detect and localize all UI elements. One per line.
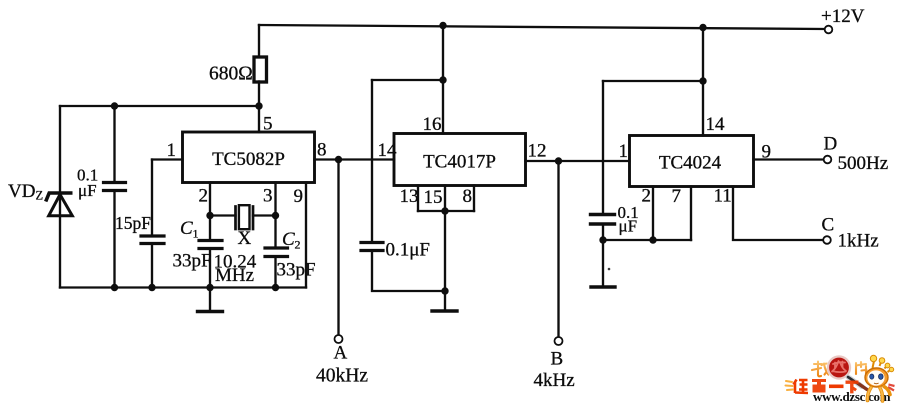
capacitor C2 33pF plates — [265, 246, 288, 249]
wire left vertical rail x=60 — [59, 106, 61, 288]
svg-text:680Ω: 680Ω — [209, 64, 253, 85]
wire 0.1uF (U3) lower — [602, 226, 604, 287]
svg-text:A: A — [334, 343, 348, 364]
svg-text:4kHz: 4kHz — [534, 370, 575, 391]
junction crystal right — [272, 212, 279, 219]
svg-text:11: 11 — [714, 186, 732, 207]
crystal X body box — [239, 205, 250, 229]
junction rail / C2 — [272, 284, 279, 291]
junction y81 branch — [699, 77, 706, 84]
wire horizontal node row y=106 — [60, 105, 259, 107]
svg-text:1: 1 — [619, 141, 629, 162]
terminal C — [823, 236, 831, 244]
wire pin1 horizontal — [152, 158, 183, 160]
wire 15pF branch lower — [151, 245, 153, 288]
junction crystal left — [206, 212, 213, 219]
svg-text:1kHz: 1kHz — [838, 231, 879, 252]
svg-text:C: C — [180, 218, 193, 239]
wire +12V top rail — [259, 25, 824, 29]
wire pin9 vertical — [305, 183, 307, 288]
wire bottom ground rail — [60, 286, 306, 288]
wire 15pF branch upper — [151, 160, 153, 235]
wire pin15 node down — [444, 211, 446, 291]
svg-text:7: 7 — [672, 186, 682, 207]
junction top rail / pin16 — [439, 22, 446, 29]
resistor 680 ohm body — [254, 57, 267, 82]
crystal X side plates — [234, 207, 237, 230]
junction y80 branch — [439, 76, 446, 83]
wire C1 lower lead — [209, 250, 211, 288]
svg-text:B: B — [551, 349, 564, 370]
wire C2 lower lead — [274, 258, 276, 288]
VDZ cathode bar — [46, 193, 73, 202]
capacitor 0.1uF (U2) plates — [361, 241, 383, 244]
wire node A vertical — [337, 160, 339, 336]
wire branch y=81 horizontal — [603, 80, 703, 82]
wire 0.1uF branch x=372 upper — [371, 80, 373, 241]
IC U2 TC4017P box — [394, 134, 526, 186]
svg-text:40kHz: 40kHz — [316, 366, 368, 387]
junction node row / resistor — [255, 102, 262, 109]
speck artifact — [608, 268, 611, 271]
svg-text:μF: μF — [619, 217, 638, 236]
svg-text:C: C — [822, 215, 835, 236]
svg-text:TC5082P: TC5082P — [212, 149, 285, 170]
wire resistor bottom lead to pin 5 node — [258, 82, 260, 107]
svg-text:14: 14 — [706, 114, 726, 135]
junction pin8 / node A — [335, 156, 342, 163]
wire pin8(U2) stub — [473, 186, 475, 212]
IC U3 TC4024 box — [630, 136, 754, 187]
wire 0.1uF branch lower — [113, 192, 115, 288]
svg-text:+12V: +12V — [821, 6, 865, 27]
mascot — [865, 355, 895, 401]
svg-text:16: 16 — [423, 114, 442, 135]
svg-text:2: 2 — [199, 186, 209, 207]
svg-text:2: 2 — [642, 186, 652, 207]
svg-text:2: 2 — [295, 238, 301, 252]
wire 0.1uF (U3) branch upper — [602, 81, 604, 213]
svg-text:1: 1 — [167, 140, 177, 161]
svg-text:13: 13 — [400, 186, 419, 207]
terminal D — [824, 156, 832, 164]
ground G1 stem — [209, 288, 211, 311]
svg-text:5: 5 — [263, 114, 273, 135]
wire pin11 stub and run to C — [733, 187, 823, 241]
wire crystal right link — [253, 214, 276, 216]
wire pin12 to pin1 — [526, 160, 630, 162]
wire crystal left link — [210, 214, 236, 216]
svg-text:33pF: 33pF — [277, 260, 316, 281]
wire pin9 to terminal D — [754, 158, 825, 160]
terminal B — [555, 337, 563, 345]
terminal A — [335, 335, 343, 343]
svg-text:www.dzsc.com: www.dzsc.com — [813, 389, 891, 403]
ground G3 bar — [591, 285, 615, 288]
svg-text:33pF: 33pF — [173, 251, 212, 272]
junction pin12 / node B — [555, 157, 562, 164]
wire pin5 vertical into TC5082P — [258, 106, 260, 132]
wire resistor top lead — [258, 25, 260, 57]
junction top rail / pin14 — [699, 24, 706, 31]
ground G2 stem — [444, 291, 446, 310]
wire pin3 vertical — [274, 183, 276, 247]
svg-text:8: 8 — [463, 186, 473, 207]
svg-text:12: 12 — [528, 141, 547, 162]
wire pin15 stub — [444, 186, 446, 212]
svg-text:9: 9 — [294, 186, 304, 207]
svg-text:TC4017P: TC4017P — [423, 152, 496, 173]
junction ground G2 — [441, 287, 448, 294]
junction pins 13-15-8 — [441, 207, 448, 214]
svg-text:1: 1 — [193, 227, 199, 241]
ground G1 bar — [198, 310, 223, 313]
capacitor 0.1uF (U3) plates — [591, 213, 615, 216]
svg-text:TC4024: TC4024 — [659, 153, 722, 174]
wire pin7 stub — [690, 187, 692, 241]
svg-text:0.1μF: 0.1μF — [386, 240, 431, 261]
zener diode VDZ — [46, 193, 73, 216]
wire pin8 to pin14 — [315, 158, 395, 160]
wire pin2 vertical — [209, 183, 211, 239]
WATERMARK (decorative) — [786, 355, 895, 403]
wire 0.1uF branch x=114.5 upper — [113, 106, 115, 181]
wire 0.1uF lower to ground link — [372, 252, 445, 291]
IC U1 TC5082P box — [183, 132, 315, 183]
svg-text:9: 9 — [762, 142, 772, 163]
wire node B vertical — [557, 161, 559, 337]
VDZ triangle — [49, 195, 73, 216]
wire branch y=80 horizontal — [372, 79, 443, 81]
svg-text:X: X — [238, 228, 252, 249]
junction cap / pin2 row — [599, 236, 606, 243]
capacitor C1 33pF plates — [199, 239, 222, 242]
wire pin14(U3) vertical — [702, 28, 704, 136]
open terminals — [335, 26, 833, 345]
wire pin16 vertical — [442, 26, 444, 134]
svg-text:8: 8 — [317, 140, 327, 161]
svg-text:500Hz: 500Hz — [838, 153, 889, 174]
junction rail / C1 — [206, 284, 213, 291]
svg-text:14: 14 — [378, 140, 398, 161]
svg-text:MHz: MHz — [215, 265, 254, 286]
wire pin2/7 tie row — [603, 239, 691, 241]
wire pin13 stub — [417, 186, 419, 212]
wire pins 13-15-8 tie bar — [418, 210, 474, 212]
svg-text:C: C — [282, 229, 295, 250]
svg-text:15: 15 — [424, 187, 443, 208]
svg-text:3: 3 — [263, 186, 273, 207]
junction rail / 0.1uF — [111, 284, 118, 291]
junction node row / 0.1uF — [111, 102, 118, 109]
junction rail / 15pF — [148, 284, 155, 291]
svg-text:15pF: 15pF — [115, 213, 151, 233]
svg-text:μF: μF — [78, 181, 97, 200]
ground G2 bar — [432, 309, 457, 312]
capacitor 15pF plates — [141, 234, 164, 237]
svg-text:D: D — [824, 134, 838, 155]
terminal +12V — [825, 26, 833, 34]
junction pin2 stub — [649, 236, 656, 243]
wire pin2 stub — [652, 187, 654, 241]
capacitor C 0.1uF left plates — [104, 181, 126, 184]
